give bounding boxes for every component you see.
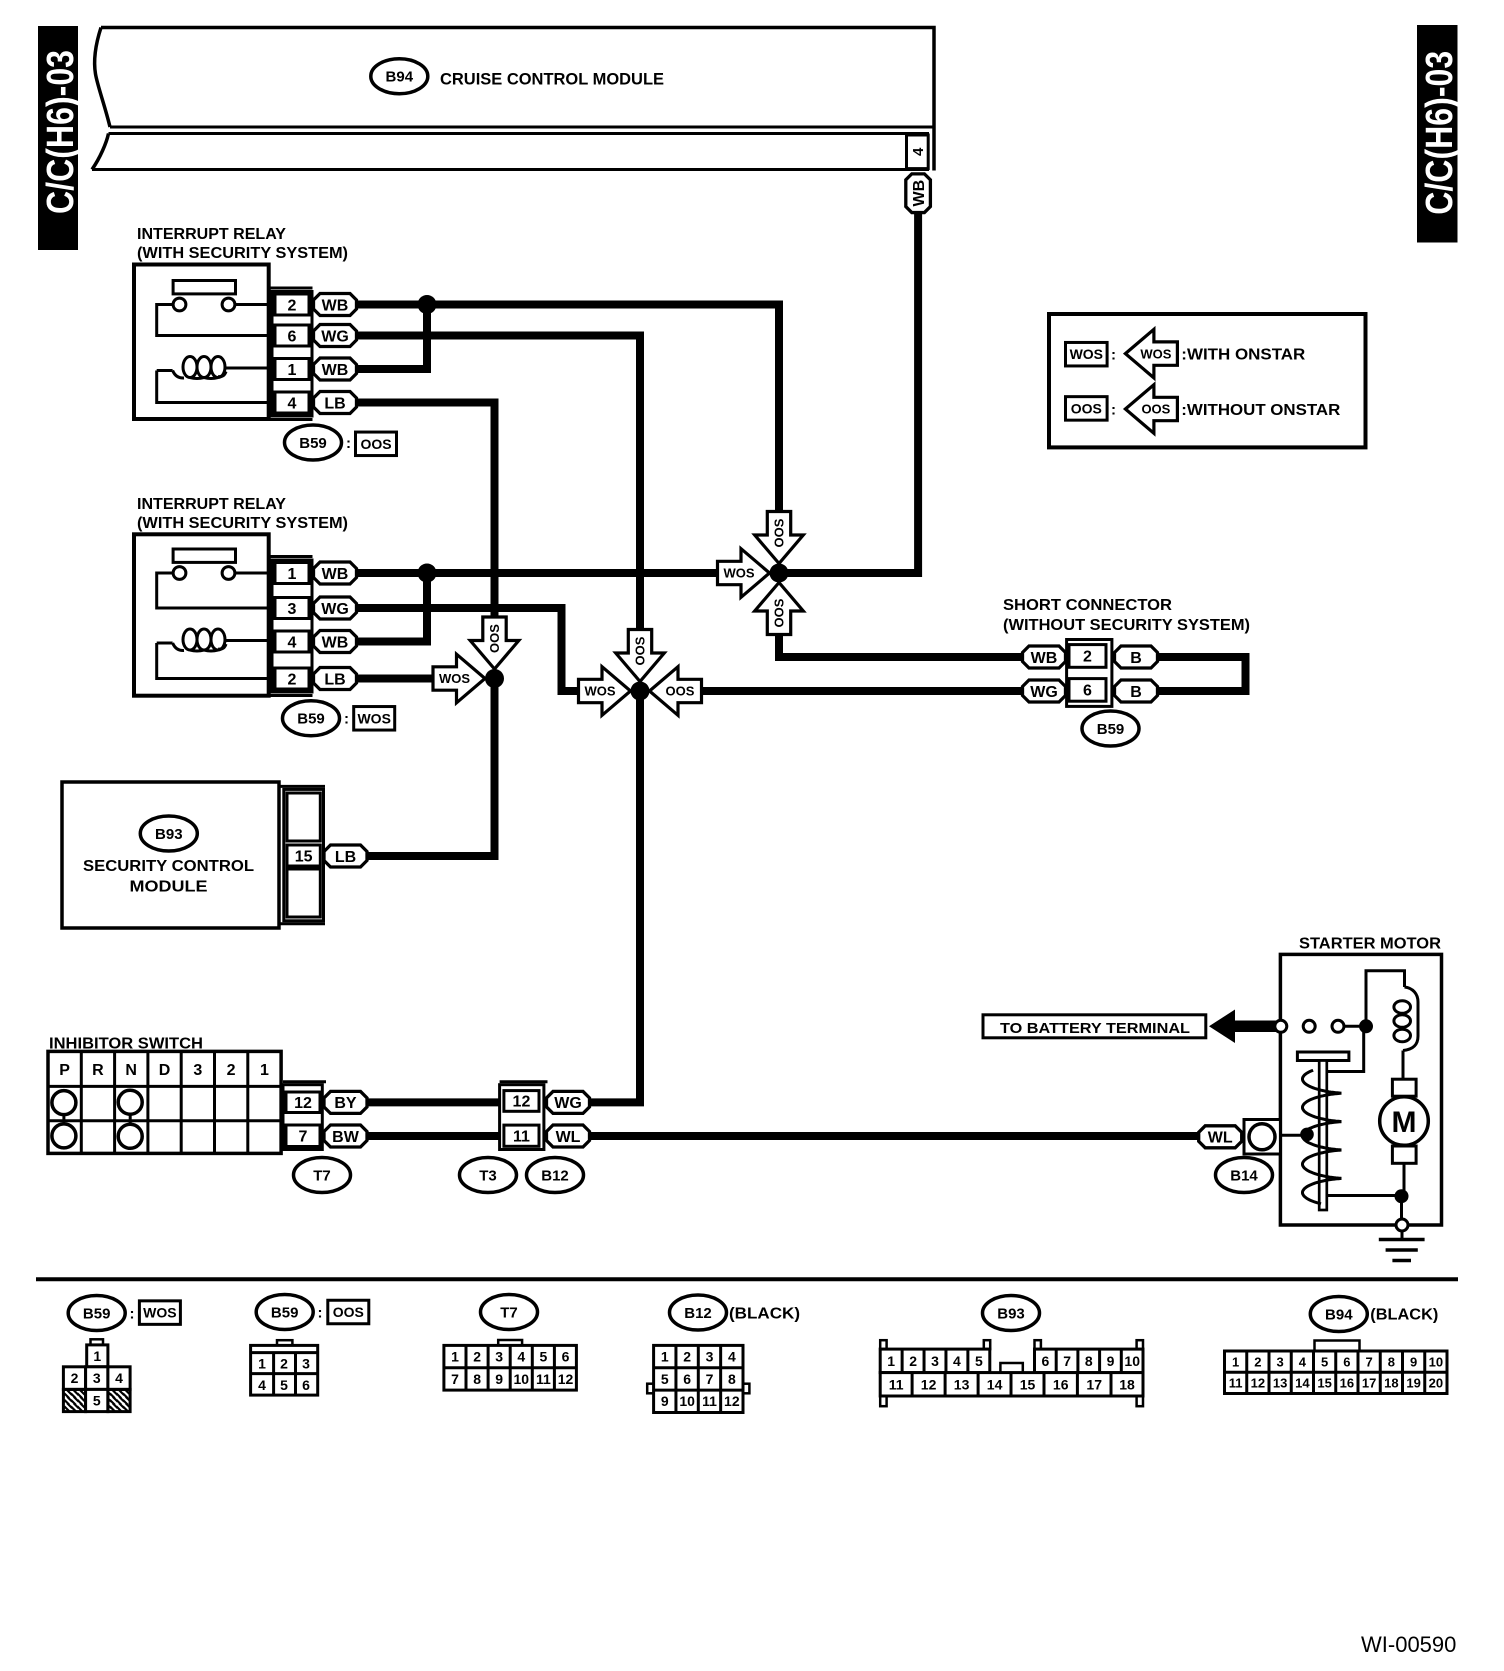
svg-text:WB: WB [322, 566, 349, 583]
inhibitor switch contacts P [52, 1091, 76, 1148]
spring junction dot (WL) [1280, 1134, 1307, 1137]
separator line [36, 1277, 1458, 1281]
svg-text:B93: B93 [155, 826, 183, 843]
svg-text:OOS: OOS [487, 624, 502, 653]
starter coil (solenoid winding) [1394, 987, 1418, 1079]
svg-text:4: 4 [115, 1370, 123, 1386]
svg-text:WOS: WOS [723, 566, 754, 581]
svg-text:(WITHOUT SECURITY SYSTEM): (WITHOUT SECURITY SYSTEM) [1003, 617, 1250, 634]
svg-text::WITHOUT ONSTAR: :WITHOUT ONSTAR [1181, 402, 1340, 419]
starter bottom link [1327, 1194, 1402, 1197]
svg-text:2: 2 [288, 671, 297, 688]
svg-text:INTERRUPT RELAY: INTERRUPT RELAY [137, 496, 286, 513]
svg-text:B94: B94 [386, 69, 414, 86]
T3/B12 connector body [500, 1082, 548, 1150]
svg-text:2: 2 [71, 1370, 79, 1386]
ground terminal circle [1396, 1219, 1408, 1231]
starter plunger T-bar [1297, 1052, 1349, 1210]
svg-text:11: 11 [536, 1371, 551, 1387]
arrow WOS (right) at left junction [433, 654, 485, 703]
svg-text:2: 2 [473, 1348, 481, 1364]
oval label B93 [140, 816, 197, 851]
svg-text:WB: WB [1031, 650, 1058, 667]
svg-text:OOS: OOS [360, 436, 391, 452]
svg-text::: : [1111, 401, 1116, 418]
svg-text:2: 2 [683, 1348, 691, 1364]
svg-text:WB: WB [322, 297, 349, 314]
wire to ground [1400, 1196, 1403, 1225]
starter plunger link [1327, 1026, 1364, 1071]
oval label B14 [1216, 1158, 1273, 1193]
legend OOS entry [1066, 397, 1117, 421]
starter motor ground dot [1395, 1189, 1409, 1203]
svg-text:4: 4 [1299, 1354, 1307, 1369]
svg-text:WG: WG [1030, 684, 1058, 701]
arrow OOS (down) at left junction [470, 617, 519, 669]
svg-text:6: 6 [562, 1348, 570, 1364]
page tab left C/C(H6)-03 [38, 26, 82, 250]
security module pin column [281, 786, 326, 923]
svg-text:B59: B59 [299, 435, 327, 452]
pin label WL (B12 pin 11) [547, 1125, 590, 1147]
svg-text:T7: T7 [500, 1304, 518, 1321]
svg-text:M: M [1392, 1106, 1417, 1139]
svg-text::: : [318, 1304, 323, 1321]
svg-text:B59: B59 [297, 711, 325, 728]
svg-text:WOS: WOS [1070, 346, 1103, 362]
svg-text:SHORT CONNECTOR: SHORT CONNECTOR [1003, 597, 1172, 614]
ground symbol [1379, 1231, 1425, 1261]
svg-text:6: 6 [1083, 683, 1092, 700]
wire WG middle junction down to T3 pin12 [590, 695, 641, 1102]
svg-text:12: 12 [1251, 1376, 1265, 1391]
arrow OOS (down) at right junction [755, 512, 804, 564]
svg-text:11: 11 [702, 1393, 717, 1409]
inhibitor switch contacts N [118, 1090, 142, 1148]
starter contact junction dot [1359, 1019, 1373, 1033]
svg-text:4: 4 [953, 1353, 961, 1369]
pin label WB (B94 pin 4) [906, 174, 931, 213]
svg-text:5: 5 [1321, 1354, 1328, 1369]
legend arrow OOS [1125, 385, 1177, 434]
svg-text:3: 3 [495, 1348, 503, 1364]
svg-text:1: 1 [260, 1062, 269, 1079]
wire WB from B94 pin4 to right junction [786, 213, 918, 574]
starter motor box [1280, 954, 1441, 1225]
svg-text:4: 4 [258, 1377, 266, 1393]
pin label LB (B93 pin 15) [324, 845, 367, 867]
arrow OOS (left) at middle junction [650, 667, 702, 716]
svg-text:16: 16 [1340, 1376, 1354, 1391]
svg-text:5: 5 [280, 1377, 288, 1393]
svg-text:WG: WG [554, 1095, 582, 1112]
svg-text:B12: B12 [684, 1305, 712, 1322]
bottom connector B94 (BLACK) [1225, 1297, 1448, 1394]
svg-text:WB: WB [911, 180, 928, 207]
wire WB relay2 pin4 tie to pin1 [357, 573, 428, 642]
svg-text:5: 5 [661, 1371, 669, 1387]
svg-text:STARTER MOTOR: STARTER MOTOR [1299, 936, 1441, 953]
wire BY inhibitor to T3 [367, 1098, 500, 1106]
bottom connector T7 [444, 1295, 577, 1391]
svg-text:9: 9 [1107, 1353, 1115, 1369]
svg-text:B59: B59 [271, 1304, 299, 1321]
svg-text:9: 9 [661, 1393, 669, 1409]
svg-text:1: 1 [451, 1348, 459, 1364]
svg-text:C/C(H6)-03: C/C(H6)-03 [40, 50, 82, 214]
svg-text:WB: WB [322, 634, 349, 651]
bottom connector B59 : OOS [251, 1295, 369, 1396]
svg-text:2: 2 [1083, 649, 1092, 666]
wire LB relay1 pin4 to left junction [357, 403, 495, 619]
junction dot relay2 WB tie [418, 564, 437, 583]
svg-text:3: 3 [302, 1356, 310, 1372]
svg-text:LB: LB [324, 671, 345, 688]
svg-text:4: 4 [288, 395, 297, 412]
svg-text:SECURITY CONTROL: SECURITY CONTROL [83, 858, 254, 875]
B14 connector symbol [1244, 1120, 1280, 1155]
svg-text:T7: T7 [313, 1167, 331, 1184]
svg-text:WG: WG [321, 328, 349, 345]
svg-text:17: 17 [1086, 1376, 1102, 1392]
starter pull-in coil feed [1366, 971, 1405, 1027]
svg-text:4: 4 [910, 147, 927, 156]
svg-text:3: 3 [706, 1348, 714, 1364]
svg-text:7: 7 [299, 1129, 308, 1146]
battery feed arrow [1209, 1010, 1279, 1044]
svg-text:18: 18 [1119, 1376, 1135, 1392]
svg-text:3: 3 [931, 1353, 939, 1369]
inhibitor pin column [283, 1082, 326, 1150]
arrow OOS (up) at right junction [755, 583, 804, 635]
junction dot LB net [485, 669, 504, 688]
short connector body B59 [1067, 640, 1112, 707]
svg-text:B14: B14 [1230, 1167, 1258, 1184]
svg-text:WI-00590: WI-00590 [1361, 1632, 1456, 1657]
oval label B59 : WOS (relay 2) [283, 701, 340, 736]
pin label BW (T7 pin 7) [324, 1125, 367, 1147]
svg-text::: : [130, 1305, 135, 1322]
svg-text:T3: T3 [479, 1167, 497, 1184]
interrupt relay 1 (with security system) [134, 265, 357, 420]
svg-text:2: 2 [288, 297, 297, 314]
pin label WL (B14) [1199, 1126, 1242, 1148]
svg-text:8: 8 [473, 1371, 481, 1387]
svg-text:B94: B94 [1325, 1306, 1353, 1323]
svg-text:LB: LB [324, 395, 345, 412]
svg-text:1: 1 [93, 1348, 101, 1364]
svg-text:B: B [1130, 684, 1142, 701]
svg-text:7: 7 [1063, 1353, 1071, 1369]
svg-text:7: 7 [1365, 1354, 1372, 1369]
arrow WOS (right) at right junction [718, 549, 770, 598]
svg-text:12: 12 [513, 1094, 531, 1111]
svg-text:WOS: WOS [439, 671, 470, 686]
wire WB relay2 pin1 to right junction WOS arrow [357, 569, 720, 577]
pin label WB (short connector pin 2) [1023, 646, 1066, 668]
pin label BY (T7 pin 12) [324, 1091, 367, 1113]
wire WG relay1 pin6 to middle junction [357, 336, 641, 630]
svg-text:MODULE: MODULE [130, 878, 208, 895]
wire LB relay2 pin2 to left junction WOS arrow [357, 675, 435, 683]
junction dot WB net [770, 564, 789, 583]
wire LB left junction down to security module pin15 [368, 679, 495, 857]
svg-text:OOS: OOS [1071, 400, 1102, 416]
svg-text:N: N [125, 1062, 137, 1079]
svg-text:D: D [159, 1062, 171, 1079]
svg-text:OOS: OOS [772, 518, 787, 547]
svg-text:6: 6 [1343, 1354, 1350, 1369]
svg-text:15: 15 [1020, 1376, 1036, 1392]
svg-text:WB: WB [322, 362, 349, 379]
svg-text:1: 1 [258, 1356, 266, 1372]
svg-text:4: 4 [517, 1348, 525, 1364]
svg-text:12: 12 [294, 1095, 312, 1112]
svg-text:OOS: OOS [633, 636, 648, 665]
svg-text:11: 11 [1229, 1376, 1243, 1391]
svg-text:1: 1 [887, 1353, 895, 1369]
svg-text:OOS: OOS [772, 598, 787, 627]
svg-text:5: 5 [975, 1353, 983, 1369]
svg-text:R: R [92, 1062, 104, 1079]
svg-text::: : [344, 711, 349, 728]
svg-text:1: 1 [288, 566, 297, 583]
svg-text:10: 10 [679, 1393, 695, 1409]
svg-text:WOS: WOS [143, 1305, 176, 1321]
svg-text:2: 2 [909, 1353, 917, 1369]
short connector loop wire B-B [1157, 657, 1246, 691]
arrow WOS (right) at middle junction [579, 667, 631, 716]
svg-text:(BLACK): (BLACK) [1370, 1307, 1438, 1324]
svg-text:WOS: WOS [584, 684, 615, 699]
svg-text:9: 9 [1410, 1354, 1417, 1369]
svg-text:4: 4 [728, 1348, 736, 1364]
svg-text:20: 20 [1429, 1376, 1443, 1391]
wire WB relay1 pin2 to right junction (via corner) [357, 305, 780, 515]
pin label WG (short connector pin 6) [1023, 680, 1066, 702]
svg-text:6: 6 [1042, 1353, 1050, 1369]
cruise control module box B94 [92, 28, 934, 171]
starter motor M symbol [1380, 1079, 1429, 1196]
arrow OOS (down) at middle junction [616, 630, 665, 682]
svg-text:C/C(H6)-03: C/C(H6)-03 [1419, 51, 1461, 215]
svg-text:CRUISE CONTROL MODULE: CRUISE CONTROL MODULE [440, 69, 664, 88]
svg-text:OOS: OOS [333, 1304, 364, 1320]
starter return spring [1303, 1070, 1342, 1204]
wire WG middle junction to short connector WG [701, 687, 1024, 695]
svg-text:13: 13 [954, 1376, 970, 1392]
bottom connector B93 [880, 1296, 1143, 1407]
svg-text:8: 8 [1085, 1353, 1093, 1369]
svg-text:10: 10 [1124, 1353, 1140, 1369]
TO BATTERY TERMINAL box [983, 1015, 1206, 1038]
svg-text:15: 15 [1317, 1376, 1331, 1391]
svg-text:1: 1 [288, 362, 297, 379]
svg-text:2: 2 [280, 1356, 288, 1372]
svg-text:13: 13 [1273, 1376, 1287, 1391]
svg-text:INTERRUPT RELAY: INTERRUPT RELAY [137, 226, 286, 243]
svg-text:B12: B12 [541, 1167, 569, 1184]
svg-text:TO BATTERY TERMINAL: TO BATTERY TERMINAL [1000, 1020, 1190, 1037]
svg-text:7: 7 [706, 1371, 714, 1387]
svg-text:11: 11 [889, 1376, 904, 1392]
wire WL from B12 pin11 to starter motor [590, 1132, 1200, 1140]
oval label B94 [371, 59, 428, 94]
svg-text:6: 6 [288, 328, 297, 345]
inhibitor switch grid [48, 1051, 281, 1153]
svg-text:5: 5 [93, 1393, 101, 1409]
svg-text:12: 12 [921, 1376, 937, 1392]
bottom connector B12 (BLACK) [647, 1295, 800, 1413]
svg-text:9: 9 [495, 1371, 503, 1387]
svg-text:WOS: WOS [1140, 346, 1171, 361]
svg-text:18: 18 [1384, 1376, 1398, 1391]
legend arrow WOS [1125, 329, 1177, 378]
interrupt relay 2 (with security system) [134, 534, 357, 695]
svg-text:3: 3 [1276, 1354, 1283, 1369]
svg-text:OOS: OOS [1141, 402, 1170, 417]
svg-text:2: 2 [227, 1062, 236, 1079]
svg-text:6: 6 [302, 1377, 310, 1393]
svg-text:12: 12 [724, 1393, 740, 1409]
svg-text:5: 5 [540, 1348, 548, 1364]
pin label B (short connector bottom) [1115, 680, 1158, 702]
svg-text:4: 4 [288, 634, 297, 651]
svg-text:3: 3 [288, 601, 297, 618]
junction dot WG net [631, 682, 650, 701]
oval label B12 [527, 1158, 584, 1193]
svg-text:WL: WL [556, 1129, 581, 1146]
svg-text:(WITH SECURITY SYSTEM): (WITH SECURITY SYSTEM) [137, 245, 348, 262]
oval label T3 [460, 1158, 517, 1193]
svg-text:6: 6 [683, 1371, 691, 1387]
page tab right C/C(H6)-03 [1417, 25, 1461, 243]
svg-text:1: 1 [1232, 1354, 1239, 1369]
oval label T7 [294, 1158, 351, 1193]
svg-text::: : [346, 435, 351, 452]
svg-text:(WITH SECURITY SYSTEM): (WITH SECURITY SYSTEM) [137, 515, 348, 532]
svg-text::WITH ONSTAR: :WITH ONSTAR [1181, 347, 1305, 364]
svg-text:19: 19 [1406, 1376, 1420, 1391]
legend box [1049, 314, 1366, 447]
svg-text:11: 11 [513, 1129, 530, 1146]
svg-text::: : [1111, 346, 1116, 363]
svg-text:3: 3 [93, 1370, 101, 1386]
oval label B59 : OOS (relay 1) [285, 425, 342, 460]
pin label B (short connector top) [1115, 646, 1158, 668]
svg-text:8: 8 [728, 1371, 736, 1387]
svg-text:B59: B59 [1097, 721, 1125, 738]
svg-text:B93: B93 [997, 1305, 1025, 1322]
svg-text:14: 14 [987, 1376, 1003, 1392]
legend WOS entry [1066, 342, 1117, 366]
svg-text:3: 3 [193, 1062, 202, 1079]
svg-text:BW: BW [332, 1129, 360, 1146]
svg-text:1: 1 [661, 1348, 669, 1364]
svg-text:16: 16 [1053, 1376, 1069, 1392]
pin 4 of B94 [907, 135, 929, 169]
bottom connector B59 : WOS [63, 1296, 180, 1412]
svg-text:WG: WG [321, 601, 349, 618]
svg-text:17: 17 [1362, 1376, 1376, 1391]
svg-text:B59: B59 [83, 1305, 111, 1322]
svg-text:10: 10 [1429, 1354, 1443, 1369]
svg-text:WOS: WOS [357, 710, 390, 726]
wire WB right junction down to short connector WB [779, 632, 1023, 657]
junction dot relay1 WB tie [418, 295, 437, 314]
oval label B59 (short connector) [1082, 711, 1139, 746]
starter switch contacts [1275, 1020, 1366, 1032]
svg-text:10: 10 [514, 1371, 530, 1387]
svg-text:8: 8 [1388, 1354, 1395, 1369]
wire WG relay2 pin3 to middle junction WOS arrow [357, 608, 581, 691]
svg-text:LB: LB [335, 849, 356, 866]
pin label WG (B12 pin 12) [547, 1091, 590, 1113]
wire WB relay1 pin1 tie to pin2 [357, 305, 428, 370]
svg-text:7: 7 [451, 1371, 459, 1387]
svg-text:12: 12 [558, 1371, 574, 1387]
svg-text:OOS: OOS [666, 684, 695, 699]
svg-text:P: P [59, 1062, 70, 1079]
security control module box B93 [62, 782, 279, 928]
svg-text:14: 14 [1295, 1376, 1310, 1391]
svg-text:B: B [1130, 650, 1142, 667]
svg-text:(BLACK): (BLACK) [729, 1306, 800, 1323]
svg-text:15: 15 [295, 848, 313, 865]
svg-text:BY: BY [334, 1095, 357, 1112]
svg-text:WL: WL [1208, 1130, 1233, 1147]
svg-text:2: 2 [1254, 1354, 1261, 1369]
wire BW inhibitor to T3 [367, 1132, 500, 1140]
